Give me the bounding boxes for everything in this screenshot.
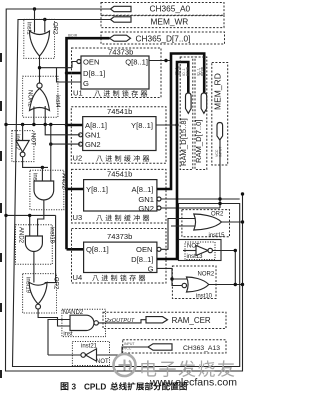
svg-text:AND2: AND2 <box>61 173 67 190</box>
wire NAND2 upper input from NOT inst21 <box>48 320 70 356</box>
svg-text:GN1: GN1 <box>85 131 101 140</box>
svg-text:NOT: NOT <box>30 133 36 146</box>
wire AND2 inst17 output to AND2 inst18 <box>38 200 44 236</box>
pin RAM_D[15..8] bidir column <box>179 57 193 170</box>
svg-text:BIDIR: BIDIR <box>200 66 204 76</box>
pin MEM_RD column <box>212 63 228 166</box>
gate NAND2 inst <box>62 309 106 337</box>
gate OR2 inst15 <box>182 210 230 239</box>
pin MEM_WR output symbol <box>101 16 224 28</box>
wire AND2 inst17 inputs <box>42 125 50 182</box>
node junction on outer top wire <box>33 7 36 10</box>
wire NOR2 inst4 inputs from net <box>34 106 45 125</box>
svg-text:NOT: NOT <box>96 359 109 365</box>
svg-text:CH365_D[7..0]: CH365_D[7..0] <box>136 33 191 43</box>
svg-text:U4: U4 <box>73 273 83 282</box>
svg-text:GN2: GN2 <box>85 140 101 149</box>
node junction on inner top wire <box>43 18 46 21</box>
svg-text:G: G <box>148 265 154 274</box>
wire NOT inst21 output to NAND feed <box>48 354 81 356</box>
wire U3 GN2 to MEM_RD vertical <box>161 207 220 209</box>
gate NOR2 inst4 flipped up <box>23 76 60 117</box>
wire OR2 inst15 output to outer rail <box>222 221 243 223</box>
pin CH365_D[7..0] bidir symbol <box>101 32 225 44</box>
svg-text:Y[8..1]: Y[8..1] <box>131 121 153 130</box>
node junction AND2 input <box>41 166 44 169</box>
svg-text:VCC: VCC <box>124 347 132 351</box>
pin RAM_D[7..0] bidir column <box>194 57 207 170</box>
gate OR2 inst1 <box>24 19 58 58</box>
svg-text:RAM_CER: RAM_CER <box>172 316 211 325</box>
svg-text:INPUT: INPUT <box>219 146 223 157</box>
svg-text:inst21: inst21 <box>81 343 98 349</box>
svg-text:2xOUTPUT: 2xOUTPUT <box>105 318 135 324</box>
block U3 74541b octal buffer <box>72 169 167 223</box>
svg-text:GN2: GN2 <box>138 204 154 213</box>
pin CH363_A13 input <box>123 340 226 353</box>
left margin scan marks <box>0 53 2 378</box>
svg-text:AND2: AND2 <box>18 227 24 244</box>
svg-text:inst4: inst4 <box>54 95 60 108</box>
wire net CH365_A0 outer loop <box>6 9 243 371</box>
svg-text:NOR2: NOR2 <box>198 272 215 278</box>
wire net MEM_WR inner loop <box>13 20 240 367</box>
svg-text:D[8..1]: D[8..1] <box>131 255 153 264</box>
gate AND2 inst17 <box>30 170 67 210</box>
wire bus CH365_D to left vertical bus <box>67 38 110 249</box>
caption 图3 CPLD 总线扩展部分配置图 <box>61 382 69 390</box>
wire U4 G stub to NOR2 inst10 <box>157 268 187 285</box>
svg-text:RAM_D[15..8]: RAM_D[15..8] <box>179 118 188 166</box>
watermark elecfans logo <box>114 354 238 389</box>
svg-text:OEN: OEN <box>83 58 99 67</box>
wire horizontal net y124.5 <box>6 124 67 126</box>
svg-text:RAM_D[7..0]: RAM_D[7..0] <box>194 120 203 163</box>
svg-text:G: G <box>83 79 89 88</box>
block U2 74541b octal buffer <box>71 107 166 163</box>
svg-text:74373b: 74373b <box>107 232 132 241</box>
svg-text:Q[8..1]: Q[8..1] <box>86 245 109 254</box>
wire bus branch to U4 Q[8..1] <box>67 248 84 251</box>
svg-text:BIDIR: BIDIR <box>186 66 190 76</box>
wire bus branch to U2 A[8..1] <box>67 124 83 127</box>
pin CH365_A0 output symbol <box>101 3 224 16</box>
gate OR2 inst19 <box>23 274 59 313</box>
wire bus right rail A <box>157 62 188 259</box>
svg-text:74373b: 74373b <box>108 48 133 57</box>
svg-text:inst13: inst13 <box>187 254 204 260</box>
wire NOT inst21 input from CH363_A13 <box>97 347 149 355</box>
gate NOT inst12 <box>12 131 36 162</box>
wire staple to U1 G <box>57 68 82 82</box>
svg-text:A[8..1]: A[8..1] <box>132 185 154 194</box>
pin RAM_CER output <box>103 312 226 328</box>
wire OR2 inst15 lower input <box>171 225 196 227</box>
wire NAND2 output to RAM_CER <box>98 320 146 323</box>
node junction right outer loop <box>241 192 244 195</box>
svg-text:inst15: inst15 <box>209 233 226 239</box>
wire MEM_RD down <box>219 140 221 208</box>
block U1 74373b octal latch <box>72 48 162 98</box>
wire OR2 inst1 inputs <box>35 9 45 33</box>
svg-text:MEM_WR: MEM_WR <box>151 16 189 26</box>
svg-text:BIDIR: BIDIR <box>68 34 78 38</box>
svg-text:inst: inst <box>63 332 73 338</box>
wire U1 Q output to right bus <box>149 60 171 62</box>
gate NOT inst21 <box>72 342 109 366</box>
wire solid box around NOT inst13 <box>179 240 222 261</box>
wire NOR2 inst10 output <box>209 284 243 286</box>
gate AND2 inst18 <box>16 225 55 265</box>
svg-text:inst18: inst18 <box>49 227 55 244</box>
wire net y215.4 from outer loop <box>6 215 56 236</box>
svg-text:U1: U1 <box>73 89 83 98</box>
svg-text:CH363_A13: CH363_A13 <box>183 345 220 352</box>
svg-text:OEN: OEN <box>136 245 152 254</box>
svg-text:U3: U3 <box>73 213 83 222</box>
wire bus right rail B <box>157 54 204 190</box>
svg-text:74541b: 74541b <box>107 170 132 179</box>
svg-text:U2: U2 <box>73 154 83 163</box>
wire tap to OR2 inst19 right input <box>45 215 55 288</box>
node bus junction U2 Y <box>156 124 177 126</box>
svg-text:D[8..1]: D[8..1] <box>83 69 105 78</box>
wire NOR2 inst4 output up <box>39 68 41 83</box>
svg-text:Q[8..1]: Q[8..1] <box>125 58 148 67</box>
wire bus branch to U1 D[8..1] <box>67 72 82 75</box>
svg-text:Y[8..1]: Y[8..1] <box>86 185 108 194</box>
wire OR2 inst1 output to U1 OEN <box>40 56 77 68</box>
gate NOT inst13 <box>185 242 215 260</box>
wire NOT inst12 input <box>22 125 24 141</box>
wire OR2 inst19 output to NAND2 <box>38 309 70 326</box>
wire NOT inst13 input <box>183 250 196 252</box>
svg-text:GN1: GN1 <box>138 195 154 204</box>
wire bus branch to U3 Y[8..1] <box>67 188 84 191</box>
svg-text:74541b: 74541b <box>107 107 132 116</box>
gate NOR2 inst10 <box>172 266 216 300</box>
wire NOT inst13 output <box>212 251 235 286</box>
svg-text:A[8..1]: A[8..1] <box>85 121 107 130</box>
svg-text:3: 3 <box>72 383 77 392</box>
wire NOT inst12 output to AND2 inst17 <box>23 157 48 168</box>
block U4 74373b octal latch <box>72 229 167 284</box>
svg-text:OR2: OR2 <box>53 277 59 290</box>
svg-text:CPLD: CPLD <box>84 383 106 392</box>
wire U4 OEN stub to OR2 inst15 <box>161 219 196 250</box>
svg-text:INPUT: INPUT <box>124 342 135 346</box>
svg-text:OR2: OR2 <box>52 22 58 35</box>
wire taps to U2 GN1 GN2 <box>45 125 80 145</box>
svg-text:inst10: inst10 <box>196 294 213 300</box>
wire U3 GN1 to MEM_RD rail <box>161 198 240 200</box>
svg-text:CH365_A0: CH365_A0 <box>150 4 191 14</box>
svg-text:MEM_RD: MEM_RD <box>213 73 223 110</box>
wire AND2 inst18 output <box>33 252 35 283</box>
